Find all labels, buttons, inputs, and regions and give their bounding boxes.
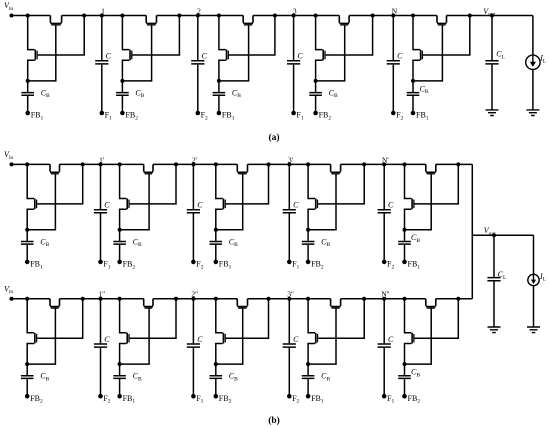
terminal FB dot (stage 5 b2) [402, 394, 407, 399]
wire: MB4b2 source down [308, 344, 315, 365]
wire: node 3 to C (a) [293, 16, 295, 61]
junction dot (gate tap, stage 2 b1) [174, 162, 178, 166]
terminal F dot (node 3 a) [291, 111, 296, 116]
wire: C to F terminal (node 3 a) [293, 65, 295, 113]
capacitor C (node 1 a) [95, 61, 108, 64]
wire: CB4b2 to FB terminal [307, 379, 309, 396]
wire: rail to MB2b2 drain [120, 299, 127, 333]
wire: MB3a source down [219, 60, 226, 81]
capacitor C (node N a) [387, 61, 400, 64]
wire: rail segment 6 to output (b1) [436, 163, 473, 165]
wire: CB5a to FB terminal [412, 96, 414, 113]
wire: rail segment 4 (b1) [248, 163, 331, 165]
node dot between MB1b2 and CB1b2 [25, 362, 29, 366]
transistor M2a (series NMOS in rail) [146, 16, 156, 24]
node N' dot (b1) [382, 162, 386, 166]
capacitor CB1b1 [21, 242, 34, 245]
wire: CB2b1 to FB terminal [119, 245, 121, 262]
transistor M5b2 (series NMOS in rail) [426, 299, 436, 307]
wire: node to CB4a [315, 81, 317, 92]
junction dot (rail, stage 4 a) [314, 14, 318, 18]
wire: CB5b1 to FB terminal [404, 245, 406, 262]
wire: rail segment 1 (a) [12, 15, 51, 17]
capacitor CB3b2 [210, 376, 223, 379]
transistor MB4b1 (branch NMOS) [315, 199, 317, 210]
transistor M3b1 (series NMOS in rail) [237, 164, 247, 172]
wire: C to F terminal (node N a) [392, 65, 394, 113]
svg-text:C: C [197, 201, 203, 210]
transistor MB5b1 (branch NMOS) [411, 199, 413, 210]
junction dot (gate tap, stage 2 a) [177, 14, 181, 18]
wire: CB5b2 to FB terminal [404, 379, 406, 396]
wire: node N to C (a) [392, 16, 394, 61]
wire: MB5b1 gate to rail [415, 164, 459, 204]
wire: MB5b2 gate to rail [415, 299, 459, 339]
node N dot (a) [391, 14, 395, 18]
wire: M2b1 gate to bulk node [120, 174, 150, 230]
terminal F dot (node 2' b1) [191, 260, 196, 265]
wire: MB5b2 source down [405, 344, 412, 365]
wire: M5b2 gate to bulk node [405, 308, 432, 364]
terminal F dot (node 1' b1) [98, 260, 103, 265]
transistor M4a (series NMOS in rail) [339, 16, 349, 24]
node 3' dot (b1) [287, 162, 291, 166]
wire: CB1a to FB terminal [27, 96, 29, 113]
wire: C to F terminal (node 1' b1) [100, 214, 102, 262]
svg-text:C: C [388, 335, 394, 344]
transistor MB2b1 (branch NMOS) [126, 199, 128, 210]
wire: C to F terminal (node 2 a) [197, 65, 199, 113]
capacitor CB4b2 [302, 376, 315, 379]
junction dot (rail, stage 4 b2) [306, 297, 310, 301]
transistor M5b1 (series NMOS in rail) [426, 164, 436, 172]
capacitor CB3b1 [210, 242, 223, 245]
terminal F dot (node 2 a) [196, 111, 201, 116]
wire: rail to MB5b1 drain [405, 164, 412, 198]
junction dot (rail, stage 4 b1) [306, 162, 310, 166]
terminal F dot (node 2'' b2) [191, 394, 196, 399]
node dot between MB2a and CB2a [120, 79, 124, 83]
wire: node 2' to C (b1) [192, 164, 194, 209]
capacitor CB3a [213, 93, 226, 96]
node dot between MB3a and CB3a [217, 79, 221, 83]
wire: MB2a source down [122, 60, 129, 81]
wire: node to CB5b1 [404, 230, 406, 241]
wire: CL to ground (b) [493, 281, 495, 327]
wire: MB4a source down [316, 60, 323, 81]
wire: C to F terminal (node 2' b1) [192, 214, 194, 262]
current source IL (a) [526, 55, 540, 69]
junction dot (gate tap, stage 4 b2) [362, 297, 366, 301]
capacitor C (node 3 a) [287, 61, 300, 64]
wire: node to CB3a [218, 81, 220, 92]
capacitor CB4a [309, 93, 322, 96]
svg-text:2': 2' [192, 155, 198, 164]
wire: Vout line (b) [472, 234, 533, 236]
wire: CB4a to FB terminal [315, 96, 317, 113]
ground (below IL, b) [527, 327, 540, 333]
junction dot (rail, stage 2 b1) [118, 162, 122, 166]
junction dot (rail, stage 3 b2) [214, 297, 218, 301]
node dot between MB3b2 and CB3b2 [214, 362, 218, 366]
junction dot (gate tap, stage 1 b2) [81, 297, 85, 301]
transistor M5a (series NMOS in rail) [437, 16, 447, 24]
wire: CB3b2 to FB terminal [215, 379, 217, 396]
transistor M2b2 (series NMOS in rail) [144, 299, 153, 307]
node 1' dot (b1) [99, 162, 103, 166]
terminal FB dot (stage 5 b1) [402, 260, 407, 265]
transistor MB3b2 (branch NMOS) [222, 333, 224, 344]
wire: rail to MB3b1 drain [216, 164, 223, 198]
ground (below CL, b) [488, 327, 501, 333]
node N'' dot (b2) [382, 297, 386, 301]
wire: MB1b2 gate to rail [37, 299, 82, 339]
node dot between MB5b2 and CB5b2 [403, 362, 407, 366]
wire: MB5a gate to rail [423, 16, 470, 56]
wire: rail segment 4 (a) [253, 15, 339, 17]
transistor M4b1 (series NMOS in rail) [331, 164, 341, 172]
wire: MB4b1 source down [308, 209, 315, 230]
junction dot (gate tap, stage 2 b2) [174, 297, 178, 301]
wire: node to CB4b2 [307, 364, 309, 375]
junction dot (gate tap, stage 1 b1) [81, 162, 85, 166]
junction dot (gate tap, stage 5 b2) [456, 297, 460, 301]
node dot between MB2b1 and CB2b1 [118, 228, 122, 232]
node 3'' dot (b2) [287, 297, 291, 301]
junction dot (gate tap, stage 5 b1) [456, 162, 460, 166]
wire: C to F terminal (node N'' b2) [383, 348, 385, 396]
transistor M3b2 (series NMOS in rail) [237, 299, 247, 307]
wire: node N' to C (b1) [383, 164, 385, 209]
junction dot (rail, stage 2 a) [120, 14, 124, 18]
transistor M2b1 (series NMOS in rail) [144, 164, 153, 172]
transistor MB5b2 (branch NMOS) [411, 333, 413, 344]
capacitor CB2a [116, 93, 129, 96]
transistor MB1b2 (branch NMOS) [34, 333, 36, 344]
terminal FB dot (stage 2 b1) [117, 260, 122, 265]
svg-text:C: C [104, 201, 110, 210]
terminal FB dot (stage 2 b2) [117, 394, 122, 399]
wire: rail to IL (a) [532, 16, 534, 56]
wire: node 2'' to C (b2) [192, 299, 194, 344]
wire: rail to MB5a drain [413, 16, 420, 50]
wire: C to F terminal (node 3'' b2) [288, 348, 290, 396]
svg-text:3: 3 [293, 7, 297, 16]
wire: MB1a source down [28, 60, 35, 81]
wire: rail segment 2 (b1) [60, 163, 144, 165]
wire: MB1a gate to rail [38, 16, 84, 56]
wire: rail to MB1b2 drain [27, 299, 34, 333]
capacitor C (node 2' b1) [187, 210, 200, 213]
wire: node to CB5a [412, 81, 414, 92]
junction dot (rail, stage 1 a) [26, 14, 30, 18]
wire: rail to MB4a drain [316, 16, 323, 50]
node 2' dot (b1) [191, 162, 195, 166]
capacitor C (node 2'' b2) [187, 344, 200, 347]
transistor M1b1 (series NMOS in rail) [50, 164, 60, 172]
wire: MB5a source down [413, 60, 420, 81]
node dot between MB1b1 and CB1b1 [25, 228, 29, 232]
wire: MB2b1 source down [120, 209, 127, 230]
wire: M1b1 gate to bulk node [27, 174, 55, 230]
wire: rail to MB5b2 drain [405, 299, 412, 333]
node dot between MB1a and CB1a [26, 79, 30, 83]
svg-text:C: C [293, 201, 299, 210]
wire: MB3b1 source down [216, 209, 223, 230]
wire: Vout to CL (a) [491, 16, 493, 61]
wire: M4b1 gate to bulk node [308, 174, 336, 230]
node dot between MB4b2 and CB4b2 [306, 362, 310, 366]
svg-text:C: C [388, 201, 394, 210]
wire: rail segment 2 (a) [62, 15, 147, 17]
junction dot (gate tap, stage 5 a) [468, 14, 472, 18]
junction dot (rail, stage 5 a) [411, 14, 415, 18]
wire: MB4b1 gate to rail [318, 164, 364, 204]
node dot between MB5b1 and CB5b1 [403, 228, 407, 232]
wire: rail to MB4b2 drain [308, 299, 315, 333]
wire: M3b1 gate to bulk node [216, 174, 243, 230]
wire: C to F terminal (node 2'' b2) [192, 348, 194, 396]
svg-text:(b): (b) [268, 415, 280, 426]
svg-text:2: 2 [197, 7, 201, 16]
wire: M5a gate to bulk node [413, 25, 442, 81]
node Vin dot (a) [10, 14, 14, 18]
wire: MB1b1 gate to rail [37, 164, 82, 204]
svg-text:C: C [197, 335, 203, 344]
capacitor CB1b2 [21, 376, 34, 379]
wire: node to CB2b1 [119, 230, 121, 241]
capacitor CB2b2 [113, 376, 126, 379]
wire: rail segment 3 (a) [157, 15, 244, 17]
wire: MB3a gate to rail [229, 16, 275, 56]
junction dot (rail, stage 2 b2) [118, 297, 122, 301]
wire: MB4a gate to rail [326, 16, 373, 56]
wire: MB3b2 source down [216, 344, 223, 365]
transistor MB3b1 (branch NMOS) [222, 199, 224, 210]
wire: MB4b2 gate to rail [318, 299, 364, 339]
wire: M4a gate to bulk node [316, 25, 345, 81]
wire: rail to MB4b1 drain [308, 164, 315, 198]
transistor MB1a (branch NMOS) [34, 50, 36, 61]
wire: node 1 to C (a) [101, 16, 103, 61]
wire: CB2a to FB terminal [121, 96, 123, 113]
terminal FB dot (stage 1 b1) [25, 260, 30, 265]
wire: rail segment 4 (b2) [248, 298, 331, 300]
junction dot (gate tap, stage 3 b1) [267, 162, 271, 166]
terminal FB dot (stage 5 a) [411, 111, 416, 116]
node dot between MB5a and CB5a [411, 79, 415, 83]
terminal FB dot (stage 4 b1) [306, 260, 311, 265]
svg-text:C: C [397, 52, 403, 61]
capacitor CL (a) [485, 61, 498, 64]
svg-text:(a): (a) [268, 132, 279, 143]
junction dot (rail, stage 1 b1) [25, 162, 29, 166]
wire: rail segment 2 (b2) [60, 298, 144, 300]
junction dot (rail, stage 1 b2) [25, 297, 29, 301]
wire: M2b2 gate to bulk node [120, 308, 150, 364]
wire: rail segment 5 (a) [349, 15, 437, 17]
wire: IL to ground (a) [532, 70, 534, 110]
wire: M4b2 gate to bulk node [308, 308, 336, 364]
svg-text:C: C [297, 52, 303, 61]
wire: node to CB2b2 [119, 364, 121, 375]
wire: rail to MB2b1 drain [120, 164, 127, 198]
svg-text:N: N [392, 7, 398, 16]
svg-text:1': 1' [99, 155, 105, 164]
wire: rail to MB1a drain [28, 16, 35, 50]
wire: node to CB3b2 [215, 364, 217, 375]
wire: MB3b1 gate to rail [226, 164, 269, 204]
node dot between MB2b2 and CB2b2 [118, 362, 122, 366]
capacitor CB5b1 [398, 242, 411, 245]
node 2'' dot (b2) [191, 297, 195, 301]
wire: M1a gate to bulk node [28, 25, 56, 81]
terminal FB dot (stage 2 a) [120, 111, 125, 116]
wire: C to F terminal (node N' b1) [383, 214, 385, 262]
capacitor C (node N' b1) [378, 210, 391, 213]
capacitor CB5b2 [398, 376, 411, 379]
wire: rail to MB2a drain [122, 16, 129, 50]
wire: node to CB1b1 [26, 230, 28, 241]
wire: CB1b2 to FB terminal [26, 379, 28, 396]
transistor MB5a (branch NMOS) [420, 50, 422, 61]
svg-text:C: C [293, 335, 299, 344]
wire: M1b2 gate to bulk node [27, 308, 55, 364]
capacitor CB5a [407, 93, 420, 96]
wire: node to CB1a [27, 81, 29, 92]
wire: M3b2 gate to bulk node [216, 308, 243, 364]
terminal FB dot (stage 4 b2) [306, 394, 311, 399]
terminal F dot (node N' b1) [382, 260, 387, 265]
wire: MB3b2 gate to rail [226, 299, 269, 339]
junction dot (rail, stage 5 b1) [403, 162, 407, 166]
terminal FB dot (stage 4 a) [313, 111, 318, 116]
capacitor CB4b1 [302, 242, 315, 245]
node 3 dot (a) [292, 14, 296, 18]
wire: node 2 to C (a) [197, 16, 199, 61]
wire: MB2a gate to rail [132, 16, 179, 56]
capacitor CL (b) [487, 278, 500, 281]
transistor M1b2 (series NMOS in rail) [50, 299, 60, 307]
terminal F dot (node 3' b1) [287, 260, 292, 265]
terminal FB dot (stage 3 a) [217, 111, 222, 116]
svg-text:N'': N'' [381, 290, 390, 299]
wire: node N'' to C (b2) [383, 299, 385, 344]
terminal FB dot (stage 1 b2) [25, 394, 30, 399]
wire: rail segment 1 (b1) [12, 163, 51, 165]
junction dot (rail, stage 3 b1) [214, 162, 218, 166]
wire: rail segment 5 (b1) [341, 163, 426, 165]
svg-text:2'': 2'' [191, 290, 198, 299]
wire: MB2b2 gate to rail [130, 299, 176, 339]
wire: node to CB5b2 [404, 364, 406, 375]
terminal F dot (node 1'' b2) [98, 394, 103, 399]
ground (below IL, a) [526, 110, 539, 116]
node 1'' dot (b2) [99, 297, 103, 301]
transistor M4b2 (series NMOS in rail) [331, 299, 341, 307]
wire: rail segment 6 to output (b2) [436, 298, 473, 300]
wire: MB5b1 source down [405, 209, 412, 230]
transistor MB1b1 (branch NMOS) [34, 199, 36, 210]
capacitor CB2b1 [113, 242, 126, 245]
transistor MB4a (branch NMOS) [322, 50, 324, 61]
wire: CB2b2 to FB terminal [119, 379, 121, 396]
wire: C to F terminal (node 1 a) [101, 65, 103, 113]
wire: rail segment 3 (b1) [153, 163, 237, 165]
wire: node to CB1b2 [26, 364, 28, 375]
transistor MB2b2 (branch NMOS) [126, 333, 128, 344]
wire: node to CB3b1 [215, 230, 217, 241]
junction dot (gate tap, stage 4 b1) [362, 162, 366, 166]
terminal FB dot (stage 3 b1) [214, 260, 219, 265]
terminal FB dot (stage 3 b2) [214, 394, 219, 399]
wire: CB1b1 to FB terminal [26, 245, 28, 262]
node Vin dot (b2) [10, 297, 14, 301]
wire: MB2b2 source down [120, 344, 127, 365]
transistor MB2a (branch NMOS) [129, 50, 131, 61]
svg-text:C: C [202, 52, 208, 61]
terminal F dot (node N'' b2) [382, 394, 387, 399]
wire: CB3b1 to FB terminal [215, 245, 217, 262]
transistor M1a (series NMOS in rail) [50, 16, 61, 24]
junction dot (gate tap, stage 3 a) [273, 14, 277, 18]
wire: IL to ground (b) [533, 286, 535, 327]
junction dot (rail, stage 3 a) [217, 14, 221, 18]
junction dot (gate tap, stage 1 a) [82, 14, 86, 18]
terminal F dot (node 3'' b2) [287, 394, 292, 399]
node Vin dot (b1) [10, 162, 14, 166]
capacitor C (node 3' b1) [283, 210, 296, 213]
wire: C to F terminal (node 3' b1) [288, 214, 290, 262]
capacitor CB1a [21, 93, 34, 96]
node 1 dot (a) [100, 14, 104, 18]
wire: node to CB4b1 [307, 230, 309, 241]
wire: MB1b2 source down [27, 344, 34, 365]
svg-text:1: 1 [101, 7, 105, 16]
junction dot (rail, stage 5 b2) [403, 297, 407, 301]
wire: rail segment 1 (b2) [12, 298, 51, 300]
node Vout dot (a) [490, 14, 494, 18]
wire: CL to ground (a) [491, 65, 493, 110]
wire: rail segment 6 to output (a) [447, 15, 533, 17]
terminal FB dot (stage 1 a) [25, 111, 30, 116]
wire: node 1'' to C (b2) [100, 299, 102, 344]
junction dot (gate tap, stage 4 a) [371, 14, 375, 18]
wire: CB3a to FB terminal [218, 96, 220, 113]
node Vout dot (b) [492, 233, 496, 237]
wire: CB4b1 to FB terminal [307, 245, 309, 262]
wire: M3a gate to bulk node [219, 25, 249, 81]
wire: node 3'' to C (b2) [288, 299, 290, 344]
capacitor C (node 2 a) [191, 61, 204, 64]
wire: rail to MB1b1 drain [27, 164, 34, 198]
transistor M3a (series NMOS in rail) [243, 16, 253, 24]
wire: Vout to CL (b) [493, 235, 495, 277]
terminal F dot (node 1 a) [100, 111, 105, 116]
svg-text:3'': 3'' [287, 290, 294, 299]
terminal F dot (node N a) [391, 111, 396, 116]
current source IL (b) [528, 274, 539, 285]
wire: MB1b1 source down [27, 209, 34, 230]
wire: node to CB2a [121, 81, 123, 92]
svg-text:C: C [104, 335, 110, 344]
capacitor C (node N'' b2) [378, 344, 391, 347]
wire: node 1' to C (b1) [100, 164, 102, 209]
wire: Vout line to IL (b) [533, 235, 535, 274]
capacitor C (node 3'' b2) [283, 344, 296, 347]
capacitor C (node 1'' b2) [94, 344, 107, 347]
svg-text:3': 3' [288, 155, 294, 164]
